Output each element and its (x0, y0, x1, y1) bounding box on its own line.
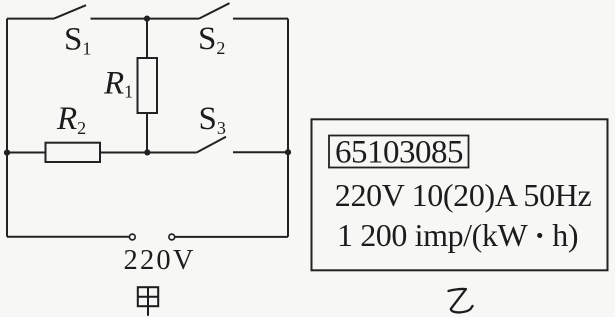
svg-text:R1: R1 (103, 66, 133, 102)
svg-text:S1: S1 (64, 22, 91, 59)
svg-text:R2: R2 (56, 101, 86, 138)
svg-text:220V 10(20)A 50Hz: 220V 10(20)A 50Hz (335, 177, 592, 213)
svg-text:220V: 220V (124, 245, 196, 276)
svg-text:S3: S3 (199, 101, 226, 138)
svg-text:1 200 imp/(kW · h): 1 200 imp/(kW · h) (337, 217, 578, 253)
svg-text:65103085: 65103085 (335, 135, 463, 171)
svg-text:S2: S2 (198, 21, 225, 58)
